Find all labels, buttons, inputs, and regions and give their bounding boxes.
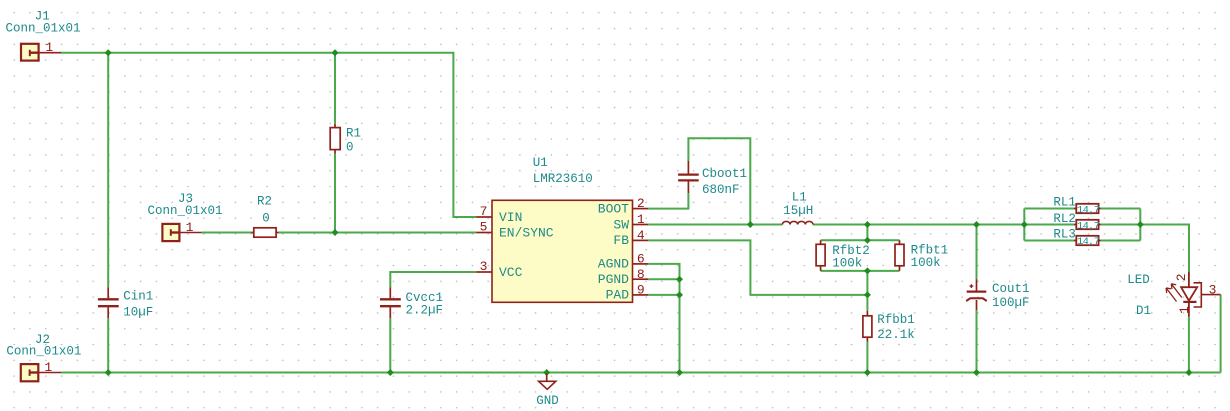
- svg-text:680nF: 680nF: [702, 183, 740, 197]
- resistor R1: [330, 124, 340, 154]
- U1 pin 3 stub: [476, 271, 492, 273]
- svg-text:1: 1: [637, 212, 645, 227]
- svg-text:SW: SW: [613, 217, 629, 232]
- svg-text:6: 6: [637, 252, 645, 267]
- svg-text:7: 7: [480, 204, 488, 219]
- ground symbol GND: [539, 374, 556, 390]
- svg-text:2: 2: [1174, 273, 1189, 281]
- wire Cvcc1 to bottom rail: [389, 318, 391, 372]
- junction bottom GND: [543, 369, 550, 376]
- resistor RL2: [1074, 220, 1101, 229]
- svg-text:22.1k: 22.1k: [877, 328, 915, 342]
- wire Cout1 to bottom rail: [976, 310, 978, 372]
- svg-text:LED: LED: [1127, 273, 1150, 287]
- wire SW to Rfbt top: [866, 225, 868, 241]
- resistor Rfbt2: [816, 240, 825, 271]
- connector J2: [21, 364, 61, 381]
- junction PGND: [676, 276, 683, 283]
- svg-text:D1: D1: [1136, 304, 1151, 318]
- svg-text:0: 0: [262, 211, 270, 225]
- wire RL1 row left: [1024, 208, 1074, 210]
- svg-text:3: 3: [1209, 282, 1217, 297]
- U1 pin 2 stub: [633, 208, 649, 210]
- U1 pin 6 stub: [633, 263, 649, 265]
- junction bottom AGND drop: [676, 369, 683, 376]
- svg-text:BOOT: BOOT: [598, 201, 629, 216]
- connector J3: [162, 224, 201, 241]
- U1 pin 1 stub: [633, 224, 649, 226]
- capacitor Cvcc1: [380, 287, 401, 318]
- junction SW at Cout: [973, 221, 980, 228]
- inductor L1: [782, 221, 813, 224]
- svg-text:VIN: VIN: [499, 210, 522, 225]
- wire RL3 row left: [1024, 240, 1074, 242]
- junction bottom Cout1: [973, 369, 980, 376]
- wire LED pin3 riser: [1220, 295, 1222, 373]
- junction RL left: [1021, 221, 1028, 228]
- resistor RL1: [1074, 204, 1101, 213]
- wire SW rail left of L1: [648, 224, 782, 226]
- svg-text:RL1: RL1: [1053, 196, 1076, 210]
- svg-text:LMR23610: LMR23610: [533, 172, 593, 186]
- svg-text:AGND: AGND: [598, 257, 629, 272]
- wire top rail J1 to VIN corner: [61, 53, 476, 217]
- svg-text:0: 0: [346, 141, 354, 155]
- svg-text:Rfbb1: Rfbb1: [877, 313, 915, 327]
- svg-text:1: 1: [186, 220, 194, 235]
- wire R1 top segment: [334, 53, 336, 124]
- wire SW rail right of L1: [813, 224, 1074, 226]
- svg-text:15µH: 15µH: [783, 204, 813, 218]
- svg-text:RL2: RL2: [1053, 212, 1076, 226]
- resistor Rfbb1: [863, 311, 872, 342]
- wire VCC pin 3 to Cvcc1: [390, 272, 476, 287]
- wire RL left vertical: [1023, 209, 1025, 241]
- wire BOOT pin 2 to Cboot1: [648, 193, 688, 209]
- svg-text:GND: GND: [536, 394, 559, 408]
- junction Rfbt bottom: [864, 267, 871, 274]
- LED D1: [1166, 272, 1221, 317]
- junction SW at Rfbt: [864, 221, 871, 228]
- junction RL right: [1137, 221, 1144, 228]
- svg-text:100k: 100k: [832, 256, 862, 270]
- wire J3 to R2: [202, 232, 252, 234]
- svg-text:Conn_01x01: Conn_01x01: [6, 21, 81, 35]
- svg-text:14,7: 14,7: [1077, 205, 1100, 217]
- svg-text:5: 5: [480, 219, 488, 234]
- wire Rfbt bottom rail: [821, 270, 900, 272]
- svg-text:FB: FB: [613, 233, 629, 248]
- svg-text:10µF: 10µF: [123, 306, 153, 320]
- svg-text:14,7: 14,7: [1077, 236, 1100, 248]
- capacitor Cout1 polarized: [966, 279, 987, 310]
- svg-text:PGND: PGND: [598, 272, 629, 287]
- U1 pin 4 stub: [633, 239, 649, 241]
- svg-text:Cout1: Cout1: [992, 282, 1030, 296]
- svg-text:1: 1: [45, 40, 53, 55]
- wire PGND pin 8 stub: [648, 278, 679, 280]
- svg-text:L1: L1: [792, 191, 807, 205]
- svg-text:EN/SYNC: EN/SYNC: [499, 225, 554, 240]
- U1 pin 7 stub: [476, 216, 492, 218]
- wire FB pin 4 branch: [648, 240, 867, 295]
- junction PAD: [676, 291, 683, 298]
- svg-text:U1: U1: [533, 156, 548, 170]
- svg-text:14,7: 14,7: [1077, 220, 1100, 232]
- wire R1 bottom segment: [334, 154, 336, 233]
- junction bottom LED: [1185, 369, 1192, 376]
- connector J1: [21, 44, 61, 61]
- svg-text:Cin1: Cin1: [123, 290, 153, 304]
- svg-text:100k: 100k: [911, 256, 941, 270]
- wire J1 junction down to Cin1: [107, 53, 109, 288]
- junction R1 top: [332, 49, 339, 56]
- wire Cin1 to bottom rail: [107, 318, 109, 372]
- capacitor Cboot1: [678, 161, 699, 193]
- svg-text:3: 3: [480, 259, 488, 274]
- svg-text:Conn_01x01: Conn_01x01: [6, 345, 81, 359]
- svg-text:2: 2: [637, 196, 645, 211]
- junction bottom Cvcc1: [387, 369, 394, 376]
- svg-text:VCC: VCC: [499, 265, 523, 280]
- U1 pin 8 stub: [633, 278, 649, 280]
- U1 pin 5 stub: [476, 232, 492, 234]
- wire Rfbb1 to bottom rail: [866, 342, 868, 373]
- wire Rfbt top rail: [821, 239, 900, 241]
- svg-text:Cboot1: Cboot1: [702, 167, 747, 181]
- svg-text:RL3: RL3: [1053, 228, 1076, 242]
- wire RL right vertical: [1139, 209, 1141, 241]
- capacitor Cin1: [98, 287, 119, 318]
- junction SW at Cboot: [747, 221, 754, 228]
- svg-text:2.2µF: 2.2µF: [406, 304, 444, 318]
- wire RL right to LED anode drop: [1101, 225, 1189, 272]
- svg-text:PAD: PAD: [606, 288, 630, 303]
- junction R1 bottom: [332, 229, 339, 236]
- svg-text:R1: R1: [346, 127, 361, 141]
- wire Cout1 top drop: [976, 225, 978, 280]
- svg-text:9: 9: [637, 283, 645, 298]
- svg-text:4: 4: [637, 228, 645, 243]
- wire RL1 row right: [1101, 208, 1141, 210]
- svg-text:1: 1: [1177, 306, 1192, 314]
- wire LED cathode to bottom rail: [1188, 317, 1190, 373]
- wire AGND pin 6 to ground drop: [648, 264, 679, 373]
- svg-text:8: 8: [637, 267, 645, 282]
- wire Cboot1 top to SW junction: [688, 138, 750, 223]
- U1 pin 9 stub: [633, 294, 649, 296]
- IC U1 LMR23610 body: [492, 200, 633, 302]
- wire Rfbt bottom to Rfbb1: [866, 271, 868, 311]
- svg-text:Conn_01x01: Conn_01x01: [148, 204, 223, 218]
- wire bottom ground rail: [61, 372, 1221, 374]
- junction J1 branch: [105, 49, 112, 56]
- resistor R2: [251, 228, 279, 237]
- junction bottom Cin1: [105, 369, 112, 376]
- svg-text:1: 1: [44, 360, 52, 375]
- wire PAD pin 9 stub: [648, 294, 679, 296]
- svg-text:R2: R2: [257, 195, 272, 209]
- wire RL3 row right: [1101, 240, 1141, 242]
- svg-text:100µF: 100µF: [992, 296, 1030, 310]
- junction Rfbt top: [864, 237, 871, 244]
- junction bottom Rfbb1: [864, 369, 871, 376]
- wire R2 to EN/SYNC pin 5: [279, 232, 477, 234]
- resistor RL3: [1074, 236, 1101, 245]
- resistor Rfbt1: [895, 240, 904, 271]
- junction FB branch: [864, 291, 871, 298]
